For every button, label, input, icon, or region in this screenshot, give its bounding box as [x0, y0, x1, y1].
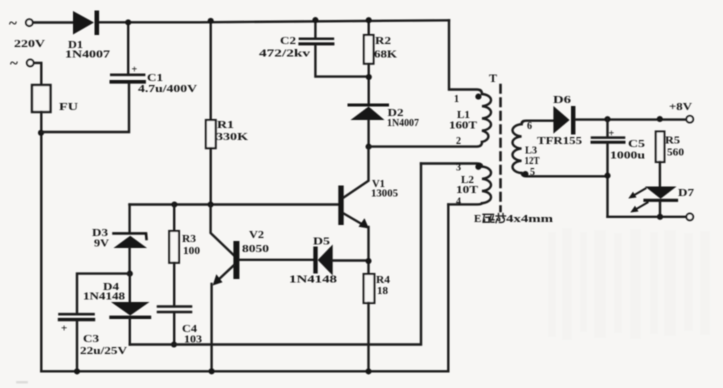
svg-text:V2: V2 [249, 229, 265, 241]
diode D5 [313, 247, 317, 274]
wire top rail drop to L1 pin1 [449, 20, 482, 94]
svg-text:100: 100 [183, 245, 201, 257]
resistor R4 [364, 274, 375, 303]
diode D1 [73, 11, 94, 35]
svg-text:D5: D5 [313, 236, 331, 248]
diode D2 [349, 104, 388, 107]
node base wire / R3 [171, 201, 177, 207]
svg-text:2: 2 [456, 136, 461, 147]
resistor R5 [656, 132, 665, 163]
node R4 bottom rail [365, 368, 371, 374]
svg-text:160T: 160T [449, 121, 477, 132]
watermark faint stripes [548, 228, 710, 340]
resistor R3 [173, 205, 175, 232]
svg-text:5: 5 [530, 167, 535, 178]
terminal AC input bottom [27, 60, 34, 67]
svg-text:1000u: 1000u [610, 150, 645, 162]
resistor R2 [368, 20, 370, 35]
terminal +8V [686, 116, 693, 123]
svg-text:C5: C5 [628, 138, 646, 150]
svg-text:68K: 68K [374, 49, 398, 61]
svg-text:+: + [61, 323, 67, 335]
svg-text:330K: 330K [216, 131, 249, 143]
wire output bottom [608, 216, 687, 218]
node C2 top [312, 17, 318, 23]
svg-text:~: ~ [10, 56, 18, 72]
svg-text:18: 18 [377, 285, 389, 297]
svg-text:R1: R1 [217, 119, 234, 131]
svg-text:~: ~ [9, 16, 17, 32]
terminal AC input top [26, 19, 33, 26]
node V1 collector / L1 pin2 [366, 144, 372, 150]
diode D4 [129, 274, 131, 302]
capacitor C1 [127, 23, 129, 75]
svg-text:D7: D7 [678, 187, 695, 199]
svg-text:1N4148: 1N4148 [289, 275, 337, 286]
resistor R1 [209, 21, 211, 120]
svg-text:C2: C2 [280, 35, 297, 47]
svg-text:8050: 8050 [242, 243, 270, 255]
node C5 bottom / L3 pin5 [604, 173, 610, 179]
svg-text:+: + [132, 65, 138, 76]
svg-text:D6: D6 [553, 94, 572, 106]
svg-text:T: T [489, 71, 497, 85]
svg-text:FU: FU [59, 101, 78, 113]
node V2 emitter rail [209, 368, 215, 374]
svg-text:10T: 10T [456, 185, 478, 196]
svg-text:L3: L3 [525, 145, 537, 157]
node R1 top [208, 18, 214, 24]
transistor V1 13005 [130, 203, 339, 205]
svg-text:1N4007: 1N4007 [65, 49, 111, 61]
node D7 bottom [657, 214, 663, 220]
svg-text:1: 1 [454, 94, 459, 105]
svg-text:4: 4 [456, 197, 461, 208]
node C5 top [604, 116, 610, 122]
svg-text:6: 6 [527, 121, 532, 132]
terminal output negative [686, 214, 693, 221]
transformer core dashed line [499, 85, 502, 211]
node R5 top [657, 116, 663, 122]
svg-text:+8V: +8V [669, 101, 692, 113]
svg-text:+: + [609, 129, 615, 140]
wire from terminal 2 to fuse [35, 63, 42, 85]
svg-text:22u/25V: 22u/25V [80, 346, 128, 357]
node C3 bottom rail [74, 368, 80, 374]
svg-text:R2: R2 [375, 35, 392, 47]
svg-text:220V: 220V [14, 38, 45, 50]
capacitor C5 [606, 119, 608, 136]
node D5 / V1 emitter [365, 258, 371, 264]
svg-text:C3: C3 [83, 333, 100, 345]
transistor V2 8050 [211, 205, 234, 256]
node C1 top [125, 19, 131, 25]
svg-text:E: E [474, 213, 481, 225]
capacitor C2 [314, 20, 316, 38]
svg-text:4x4mm: 4x4mm [506, 213, 553, 225]
wire feedback (L2 pin3 to D4/C4) [130, 164, 421, 345]
capacitor C4 [158, 305, 191, 308]
svg-text:L1: L1 [457, 109, 470, 121]
svg-text:13005: 13005 [371, 188, 398, 200]
winding L1 160T [482, 94, 491, 142]
node D3/D4/C3 junction [127, 271, 133, 277]
wire bottom rail [41, 204, 448, 371]
zener D3 [128, 205, 130, 234]
node FU/C1 junction [38, 130, 44, 136]
wire top rail [34, 20, 449, 22]
svg-text:472/2kv: 472/2kv [259, 49, 310, 60]
svg-text:4.7u/400V: 4.7u/400V [138, 84, 198, 95]
svg-text:R3: R3 [182, 233, 197, 245]
svg-text:1N4148: 1N4148 [83, 292, 125, 303]
svg-text:1N4007: 1N4007 [387, 118, 419, 129]
svg-text:12T: 12T [525, 156, 540, 167]
svg-text:TFR155: TFR155 [537, 135, 583, 147]
node R2 top [366, 17, 372, 23]
svg-text:C1: C1 [147, 72, 163, 84]
node base wire / R1 / V2 collector [208, 201, 214, 207]
svg-text:3: 3 [456, 163, 461, 174]
winding L2 10T [421, 164, 482, 167]
svg-text:9V: 9V [94, 238, 109, 250]
svg-text:R5: R5 [665, 135, 681, 147]
fuse FU [32, 85, 51, 112]
winding L3 12T [522, 121, 554, 125]
LED D7 [645, 187, 677, 199]
node R2 bottom / C2 [366, 74, 372, 80]
capacitor C3 [77, 274, 130, 313]
wire left rail [40, 112, 42, 371]
node C4 / feedback wire [171, 341, 177, 347]
diode D6 [553, 106, 569, 134]
wire L1 pin2 to V1 collector [369, 142, 482, 147]
svg-text:560: 560 [667, 147, 685, 159]
